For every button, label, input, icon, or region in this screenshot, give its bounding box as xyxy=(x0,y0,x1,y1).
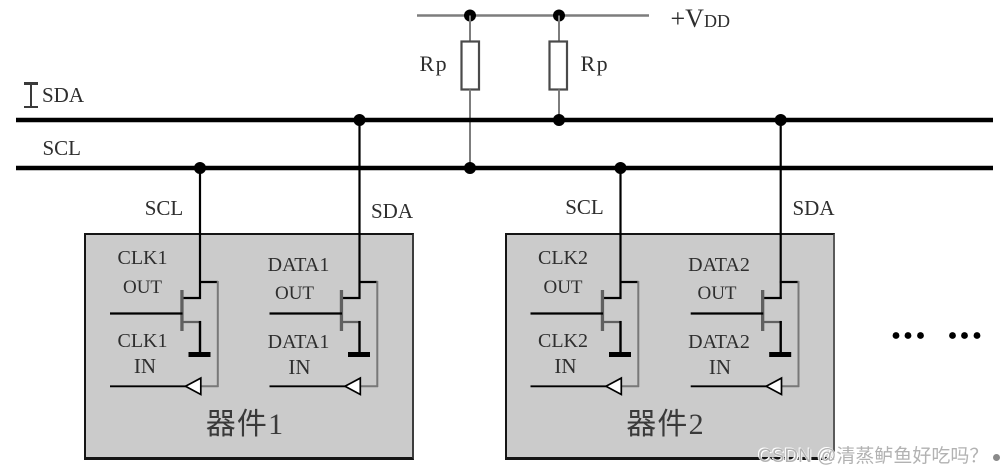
transistor Q2b channel bar xyxy=(761,290,764,331)
wire device1 DATA bus drop (x=359.5) xyxy=(358,120,360,299)
wire device2 CLK source to ground xyxy=(619,321,621,353)
transistor Q1b channel bar xyxy=(340,290,343,331)
transistor Q2a channel bar xyxy=(601,290,604,331)
label CLK1 (IN row) xyxy=(103,331,183,351)
buffer device1 CLK IN triangle xyxy=(186,378,201,394)
device 1 box xyxy=(84,233,414,460)
watermark CSDN xyxy=(758,447,988,466)
transistor Q1b drain lead xyxy=(341,297,361,299)
wire device2 CLK gate line from OUT xyxy=(531,312,604,314)
buffer device1 DATA IN triangle xyxy=(345,378,360,394)
label Rp left xyxy=(420,53,449,75)
resistor Rp left (SCL pull-up) xyxy=(462,42,480,90)
ellipsis group 1 xyxy=(893,332,924,339)
transistor Q1a drain lead xyxy=(182,297,202,299)
label 器件1 xyxy=(195,410,295,440)
label Rp right xyxy=(581,53,610,75)
node SCL / device2 CLK wire xyxy=(615,162,627,174)
label DATA1 xyxy=(259,255,339,275)
wire +VDD rail xyxy=(417,14,649,17)
label DATA1 (IN row) xyxy=(259,332,339,352)
label OUT (DATA1) xyxy=(255,284,335,303)
wire device1 DATA branch to input buffer xyxy=(359,281,379,387)
node SDA / device1 DATA wire xyxy=(354,114,366,126)
node SCL / Rp left xyxy=(464,162,476,174)
ground device1 DATA xyxy=(348,352,370,357)
junction node on VDD rail (SCL pull-up) xyxy=(464,10,476,22)
wire device2 DATA bus drop (x=780.7) xyxy=(780,120,782,299)
wire device1 CLK branch to input buffer xyxy=(199,281,219,387)
wire device2 CLK branch to input buffer xyxy=(620,281,640,387)
label OUT (CLK2) xyxy=(523,278,603,297)
wire device2 DATA gate line from OUT xyxy=(691,312,764,314)
label 器件2 xyxy=(616,410,716,440)
wire device2 DATA IN line xyxy=(691,385,768,387)
wire resistor Rp right down to SDA bus xyxy=(558,90,560,120)
label SDA pin device1 xyxy=(362,201,422,222)
wire device2 CLK bus drop (x=620.5) xyxy=(619,168,621,299)
wire device2 CLK IN line xyxy=(531,385,608,387)
label CLK2 xyxy=(523,248,603,268)
ground device2 DATA xyxy=(769,352,791,357)
label SCL pin device1 xyxy=(134,198,194,219)
label +VDD xyxy=(671,6,730,32)
transistor Q1a source lead xyxy=(182,321,201,323)
junction node on VDD rail (SDA pull-up) xyxy=(553,10,565,22)
transistor Q2a drain lead xyxy=(602,297,622,299)
wire device1 DATA source to ground xyxy=(358,321,360,353)
label DATA2 xyxy=(679,255,759,275)
label CLK1 xyxy=(103,248,183,268)
wire VDD to resistor Rp left xyxy=(469,16,471,43)
label IN (CLK2) xyxy=(526,356,606,377)
wire device1 CLK bus drop (x=200.0) xyxy=(199,168,201,299)
wire device1 CLK gate line from OUT xyxy=(110,312,183,314)
wire device2 DATA branch to input buffer xyxy=(780,281,800,387)
buffer device2 CLK IN triangle xyxy=(606,378,621,394)
wire device1 DATA gate line from OUT xyxy=(270,312,343,314)
wire SDA bus line xyxy=(16,118,993,123)
ground device2 CLK xyxy=(609,352,631,357)
ground device1 CLK xyxy=(189,352,211,357)
node SCL / device1 CLK wire xyxy=(194,162,206,174)
buffer device2 DATA IN triangle xyxy=(766,378,781,394)
wire SCL bus line xyxy=(16,166,993,171)
wire VDD to resistor Rp right xyxy=(558,16,560,43)
label OUT (DATA2) xyxy=(677,284,757,303)
label IN (DATA2) xyxy=(680,357,760,378)
label DATA2 (IN row) xyxy=(679,332,759,352)
text cursor I-beam xyxy=(24,82,38,85)
wire device1 DATA IN line xyxy=(270,385,347,387)
resistor Rp right (SDA pull-up) xyxy=(550,42,568,90)
transistor Q2b drain lead xyxy=(762,297,782,299)
label IN (CLK1) xyxy=(105,356,185,377)
label OUT (CLK1) xyxy=(103,278,183,297)
node SDA / device2 DATA wire xyxy=(775,114,787,126)
device 2 box xyxy=(505,233,836,460)
transistor Q1b source lead xyxy=(342,321,361,323)
label SCL pin device2 xyxy=(555,197,615,218)
label SCL bus xyxy=(43,138,82,159)
label SDA bus xyxy=(42,85,84,106)
wire device2 DATA source to ground xyxy=(780,321,782,353)
label IN (DATA1) xyxy=(260,357,340,378)
wire resistor Rp left down to SCL bus xyxy=(469,90,471,168)
transistor Q2a source lead xyxy=(603,321,622,323)
node SDA / Rp right xyxy=(553,114,565,126)
ellipsis group 2 xyxy=(949,332,980,339)
transistor Q1a channel bar xyxy=(180,290,183,331)
transistor Q2b source lead xyxy=(763,321,782,323)
label SDA pin device2 xyxy=(784,198,844,219)
wire device1 CLK IN line xyxy=(110,385,187,387)
watermark trailing dot xyxy=(993,454,1000,461)
wire device1 CLK source to ground xyxy=(199,321,201,353)
label CLK2 (IN row) xyxy=(523,331,603,351)
